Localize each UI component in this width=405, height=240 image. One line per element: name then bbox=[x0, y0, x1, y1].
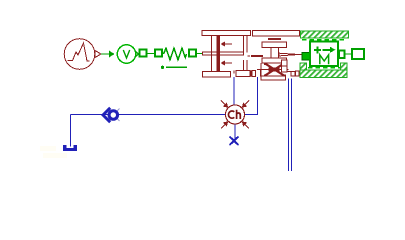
dashed line above bottom frame bbox=[308, 67, 340, 69]
motor box U1 bbox=[310, 42, 338, 67]
winding foot filled stripe bbox=[250, 71, 253, 77]
wire to load bbox=[345, 53, 353, 55]
output pennant arrow to motor pad bbox=[279, 53, 297, 56]
ground cup bbox=[65, 145, 76, 150]
motor bottom frame stub right bbox=[341, 63, 348, 70]
faint label bbox=[40, 146, 67, 158]
input pill connector bbox=[203, 52, 244, 55]
voltmeter V1 bbox=[117, 45, 135, 63]
blue wire: charge meter left bbox=[71, 114, 226, 116]
charge meter Ch bbox=[226, 105, 245, 124]
blue wire: converter right to charge meter right bbox=[245, 77, 258, 115]
mass bar (minus) bbox=[268, 38, 281, 40]
bottom plate bar left bbox=[203, 72, 231, 78]
pad bracket for wire2 bbox=[257, 70, 261, 77]
pad below bottom bar for wire1 bbox=[233, 71, 235, 74]
blue double line right pair bbox=[288, 79, 290, 172]
wire P1 to P2 bbox=[148, 53, 155, 55]
winding foot square bbox=[252, 71, 256, 77]
top plate bar right bbox=[253, 31, 300, 37]
friction X center bar bbox=[269, 67, 280, 71]
connector winding to beam thin bbox=[248, 55, 251, 57]
polarization arrow 2 bbox=[225, 62, 232, 64]
Ch arrows NW NE SW SE bbox=[221, 101, 249, 129]
dashed line under top frame bbox=[302, 39, 344, 41]
load block bbox=[352, 49, 364, 59]
piezo top plate bar left bbox=[202, 31, 251, 36]
arrow symbol bbox=[323, 49, 332, 51]
variable indicator dot-line under R1 bbox=[161, 66, 164, 69]
friction X diagonals bbox=[265, 64, 284, 76]
I-beam bottom flange bbox=[262, 58, 287, 63]
M label bbox=[320, 55, 329, 64]
X bottom bar bbox=[261, 76, 286, 80]
friction X left edge bbox=[260, 63, 262, 76]
sensor on wire bbox=[103, 108, 120, 122]
blue wire: down to ground bbox=[70, 115, 72, 147]
I-beam top flange bbox=[262, 42, 287, 48]
plus symbol bbox=[314, 46, 321, 53]
resistor R1 zigzag bbox=[164, 48, 187, 59]
arrowhead into voltmeter bbox=[109, 51, 115, 58]
piezo thin electrode bbox=[211, 36, 213, 72]
winding upper bar bbox=[244, 36, 248, 71]
motor right pad bbox=[339, 51, 345, 59]
friction X serifs bbox=[264, 63, 267, 65]
right connector squares bbox=[282, 60, 288, 66]
pad P3 bbox=[189, 50, 196, 57]
connector winding to beam thick bbox=[251, 55, 263, 57]
terminator X mark bbox=[230, 137, 239, 146]
winding foot bbox=[236, 71, 250, 77]
pad P2 bbox=[155, 50, 162, 57]
blue wire: converter to charge meter top bbox=[71, 77, 292, 171]
wire P3 to converter bbox=[197, 53, 203, 55]
winding lower bar bbox=[243, 60, 245, 71]
piezo thick bar bbox=[217, 36, 221, 72]
polarization arrow 1 bbox=[225, 43, 232, 45]
motor top hatched frame bbox=[301, 31, 349, 38]
blue wire: charge meter bottom bbox=[234, 124, 236, 139]
I-beam web bbox=[271, 48, 279, 59]
signal source SRC1 bbox=[64, 39, 101, 70]
pad P1 bbox=[140, 50, 147, 57]
motor bottom hatched frame bbox=[300, 70, 347, 78]
nib voltmeter to pad bbox=[135, 51, 139, 57]
wire source to voltmeter bbox=[101, 53, 112, 55]
motor bottom frame stub left bbox=[300, 63, 307, 70]
motor input pad (filled) bbox=[302, 52, 310, 60]
friction X element axle bbox=[261, 69, 289, 71]
